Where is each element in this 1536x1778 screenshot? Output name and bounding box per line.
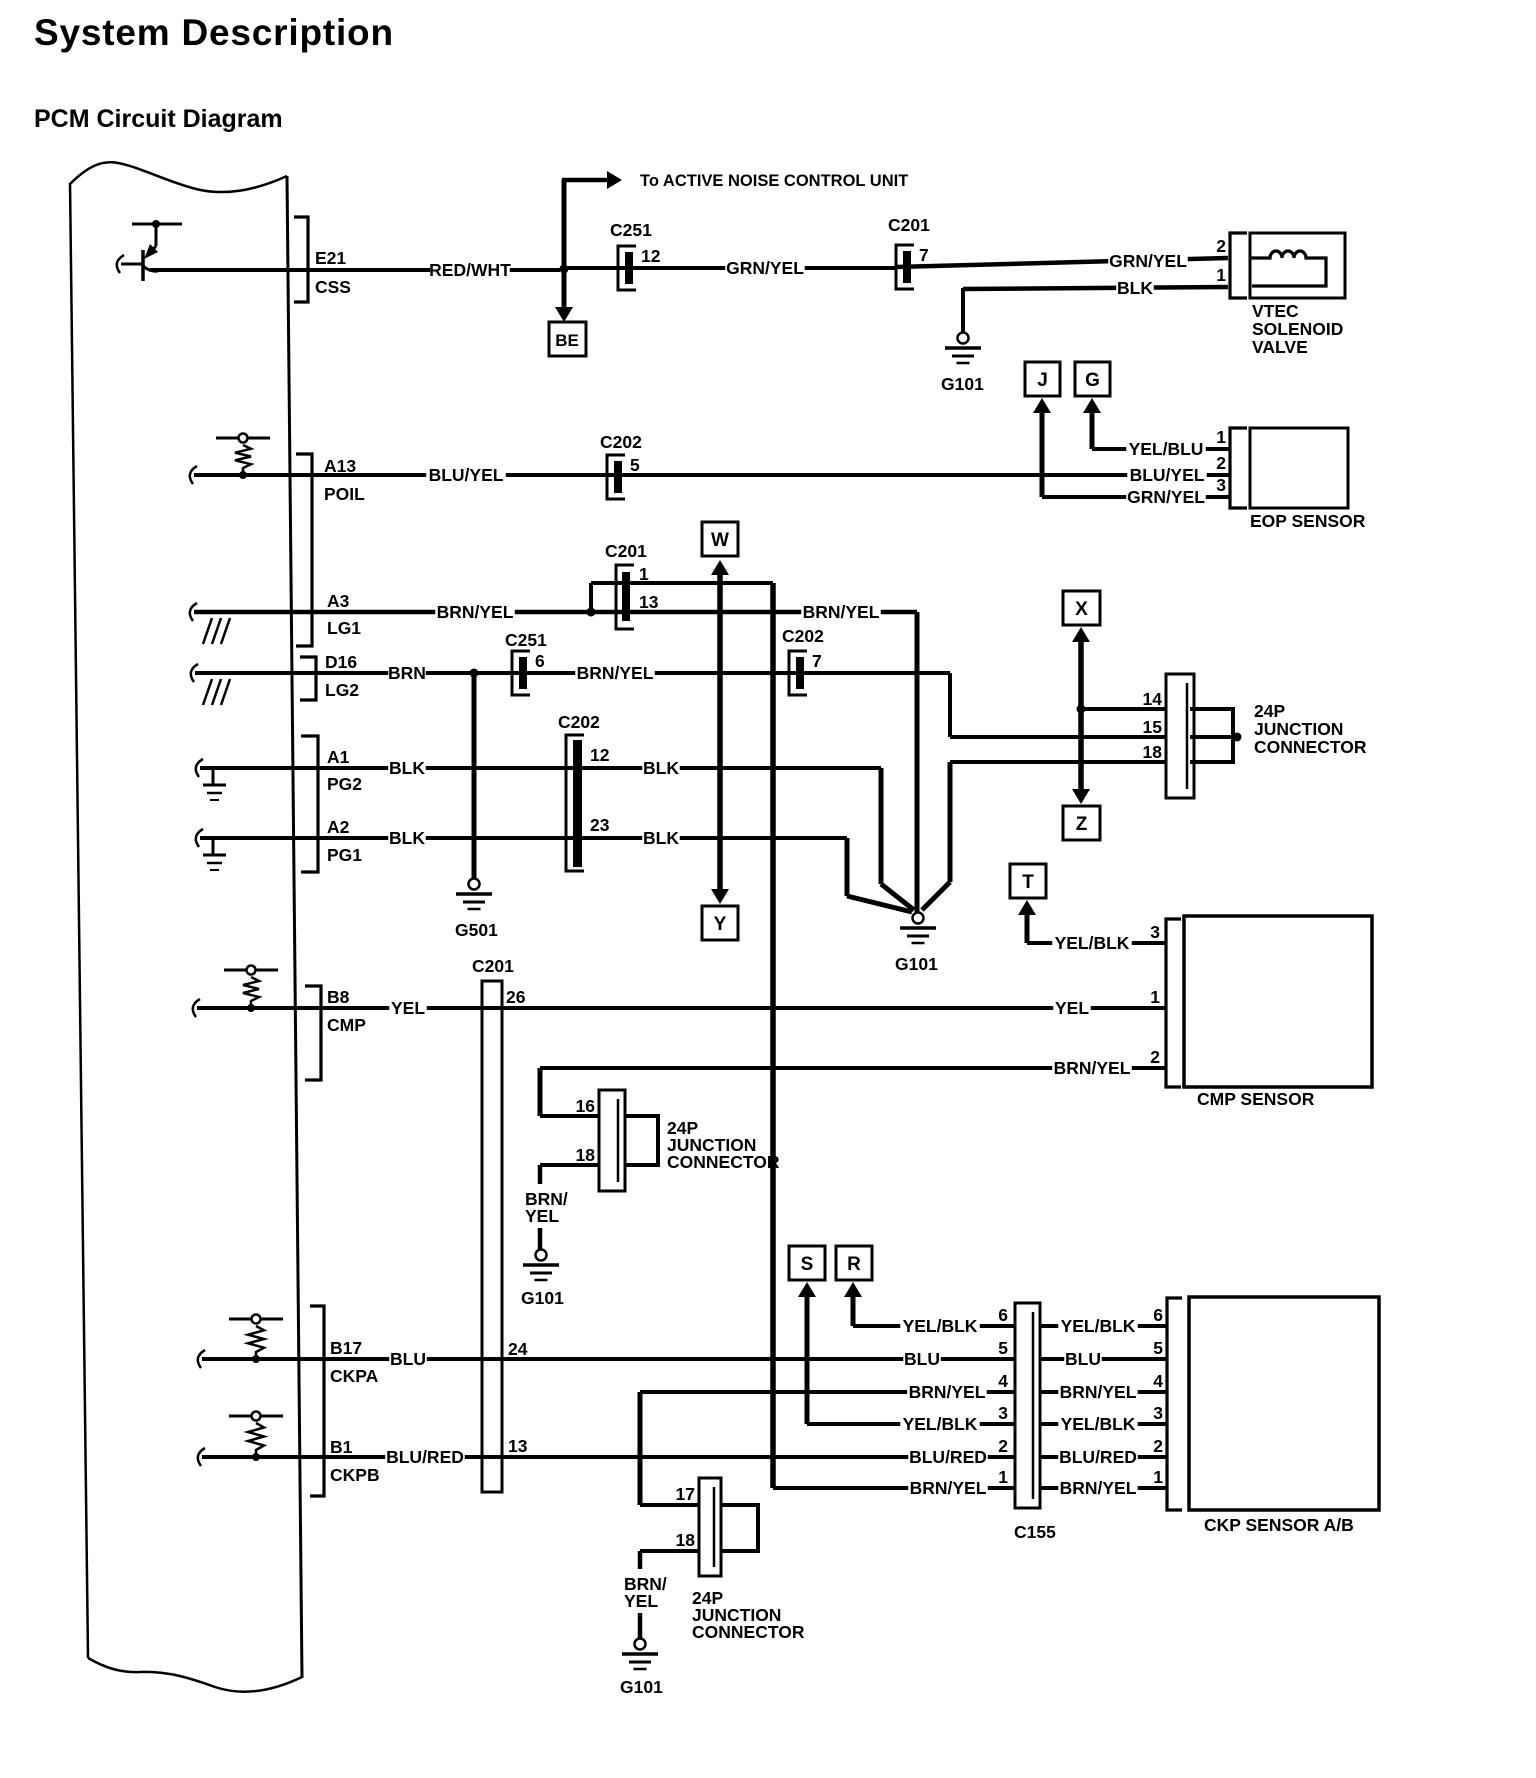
svg-text:14: 14 <box>1143 689 1163 709</box>
svg-text:CONNECTOR: CONNECTOR <box>692 1622 805 1642</box>
svg-text:T: T <box>1022 872 1034 893</box>
svg-text:BLU/YEL: BLU/YEL <box>429 465 504 485</box>
svg-text:6: 6 <box>998 1305 1008 1325</box>
svg-text:GRN/YEL: GRN/YEL <box>1109 251 1187 271</box>
svg-text:5: 5 <box>1153 1338 1163 1358</box>
svg-text:Y: Y <box>714 914 727 935</box>
svg-text:18: 18 <box>1143 742 1163 762</box>
svg-text:BRN/YEL: BRN/YEL <box>1060 1478 1137 1498</box>
svg-text:CONNECTOR: CONNECTOR <box>667 1152 780 1172</box>
svg-text:18: 18 <box>576 1145 596 1165</box>
svg-text:C155: C155 <box>1014 1522 1056 1542</box>
svg-text:BLU: BLU <box>390 1349 426 1369</box>
svg-text:CKP SENSOR A/B: CKP SENSOR A/B <box>1204 1515 1354 1535</box>
svg-text:G101: G101 <box>895 954 938 974</box>
svg-text:1: 1 <box>1150 987 1160 1007</box>
svg-text:2: 2 <box>998 1436 1008 1456</box>
svg-text:To ACTIVE NOISE CONTROL UNIT: To ACTIVE NOISE CONTROL UNIT <box>640 172 908 190</box>
svg-text:7: 7 <box>812 651 822 671</box>
svg-text:1: 1 <box>639 564 649 584</box>
svg-text:C202: C202 <box>558 712 600 732</box>
svg-text:VTEC: VTEC <box>1252 301 1299 321</box>
svg-text:BLK: BLK <box>389 828 425 848</box>
svg-text:26: 26 <box>506 987 526 1007</box>
svg-text:BRN/YEL: BRN/YEL <box>803 602 880 622</box>
svg-text:BLU/RED: BLU/RED <box>1059 1447 1137 1467</box>
svg-text:1: 1 <box>998 1467 1008 1487</box>
svg-text:PCM Circuit Diagram: PCM Circuit Diagram <box>34 105 283 133</box>
svg-text:C202: C202 <box>600 432 642 452</box>
svg-text:BLU/RED: BLU/RED <box>909 1447 987 1467</box>
svg-text:15: 15 <box>1143 717 1163 737</box>
svg-text:13: 13 <box>508 1436 528 1456</box>
svg-text:23: 23 <box>590 815 610 835</box>
svg-text:BRN/YEL: BRN/YEL <box>1060 1382 1137 1402</box>
svg-text:YEL: YEL <box>624 1591 658 1611</box>
svg-text:4: 4 <box>1153 1371 1163 1391</box>
svg-text:7: 7 <box>919 245 929 265</box>
svg-text:BE: BE <box>555 331 579 350</box>
svg-text:5: 5 <box>630 455 640 475</box>
svg-text:24P: 24P <box>1254 701 1285 721</box>
svg-text:CMP: CMP <box>327 1015 366 1035</box>
svg-text:S: S <box>801 1254 814 1275</box>
svg-text:A3: A3 <box>327 591 350 611</box>
svg-text:PG2: PG2 <box>327 774 362 794</box>
svg-text:C251: C251 <box>505 630 547 650</box>
svg-text:X: X <box>1075 599 1088 620</box>
svg-text:2: 2 <box>1150 1047 1160 1067</box>
svg-text:C201: C201 <box>472 956 514 976</box>
svg-text:B17: B17 <box>330 1338 362 1358</box>
svg-text:BLK: BLK <box>389 758 425 778</box>
svg-text:G101: G101 <box>941 374 984 394</box>
svg-text:BLU/RED: BLU/RED <box>386 1447 464 1467</box>
svg-text:YEL/BLK: YEL/BLK <box>903 1316 978 1336</box>
svg-text:6: 6 <box>1153 1305 1163 1325</box>
svg-text:1: 1 <box>1216 265 1226 285</box>
svg-text:18: 18 <box>676 1530 696 1550</box>
svg-text:PG1: PG1 <box>327 845 362 865</box>
svg-text:BRN/YEL: BRN/YEL <box>1054 1058 1131 1078</box>
svg-text:2: 2 <box>1216 453 1226 473</box>
svg-text:CONNECTOR: CONNECTOR <box>1254 737 1367 757</box>
svg-text:3: 3 <box>1153 1403 1163 1423</box>
svg-text:B1: B1 <box>330 1437 353 1457</box>
svg-text:C202: C202 <box>782 626 824 646</box>
svg-text:CKPA: CKPA <box>330 1366 379 1386</box>
svg-text:2: 2 <box>1216 236 1226 256</box>
svg-text:BRN/YEL: BRN/YEL <box>437 602 514 622</box>
svg-text:5: 5 <box>998 1338 1008 1358</box>
svg-text:1: 1 <box>1216 427 1226 447</box>
svg-text:6: 6 <box>535 651 545 671</box>
svg-text:3: 3 <box>1150 922 1160 942</box>
svg-text:13: 13 <box>639 592 659 612</box>
svg-text:LG2: LG2 <box>325 680 359 700</box>
svg-text:YEL/BLK: YEL/BLK <box>1061 1316 1136 1336</box>
svg-text:G101: G101 <box>620 1677 663 1697</box>
svg-text:C201: C201 <box>888 215 930 235</box>
svg-text:BRN: BRN <box>388 663 426 683</box>
svg-text:J: J <box>1037 370 1048 391</box>
svg-text:C201: C201 <box>605 541 647 561</box>
svg-text:YEL/BLK: YEL/BLK <box>1055 933 1130 953</box>
svg-text:A2: A2 <box>327 817 350 837</box>
svg-text:2: 2 <box>1153 1436 1163 1456</box>
svg-text:W: W <box>711 530 729 551</box>
svg-text:1: 1 <box>1153 1467 1163 1487</box>
svg-text:YEL/BLK: YEL/BLK <box>1061 1414 1136 1434</box>
svg-text:CSS: CSS <box>315 277 351 297</box>
svg-text:LG1: LG1 <box>327 618 361 638</box>
svg-text:YEL: YEL <box>1055 998 1089 1018</box>
svg-text:3: 3 <box>998 1403 1008 1423</box>
svg-text:E21: E21 <box>315 248 346 268</box>
svg-text:3: 3 <box>1216 475 1226 495</box>
svg-text:BLK: BLK <box>1117 278 1153 298</box>
svg-text:System Description: System Description <box>34 12 394 53</box>
svg-text:BRN/YEL: BRN/YEL <box>577 663 654 683</box>
svg-text:D16: D16 <box>325 652 357 672</box>
svg-text:POIL: POIL <box>324 484 365 504</box>
svg-text:RED/WHT: RED/WHT <box>429 260 511 280</box>
svg-text:YEL: YEL <box>525 1206 559 1226</box>
svg-text:C251: C251 <box>610 220 652 240</box>
svg-text:BLK: BLK <box>643 758 679 778</box>
svg-text:VALVE: VALVE <box>1252 337 1308 357</box>
svg-text:GRN/YEL: GRN/YEL <box>726 258 804 278</box>
svg-text:12: 12 <box>641 246 661 266</box>
svg-text:YEL/BLK: YEL/BLK <box>903 1414 978 1434</box>
svg-text:CMP SENSOR: CMP SENSOR <box>1197 1089 1315 1109</box>
svg-text:R: R <box>847 1254 861 1275</box>
svg-text:24: 24 <box>508 1339 528 1359</box>
svg-text:A1: A1 <box>327 747 350 767</box>
svg-text:BLU: BLU <box>904 1349 940 1369</box>
svg-text:JUNCTION: JUNCTION <box>1254 719 1343 739</box>
svg-text:B8: B8 <box>327 987 350 1007</box>
svg-text:Z: Z <box>1076 814 1088 835</box>
svg-text:BRN/YEL: BRN/YEL <box>909 1382 986 1402</box>
svg-text:17: 17 <box>676 1484 695 1504</box>
svg-text:G101: G101 <box>521 1288 564 1308</box>
svg-text:G501: G501 <box>455 920 498 940</box>
svg-text:BLU: BLU <box>1065 1349 1101 1369</box>
svg-text:BLU/YEL: BLU/YEL <box>1130 465 1205 485</box>
svg-text:BLK: BLK <box>643 828 679 848</box>
svg-text:YEL/BLU: YEL/BLU <box>1129 439 1204 459</box>
svg-text:GRN/YEL: GRN/YEL <box>1127 487 1205 507</box>
svg-text:12: 12 <box>590 745 610 765</box>
svg-text:G: G <box>1085 370 1100 391</box>
svg-text:YEL: YEL <box>391 998 425 1018</box>
svg-text:CKPB: CKPB <box>330 1465 380 1485</box>
svg-text:EOP SENSOR: EOP SENSOR <box>1250 511 1366 531</box>
svg-text:4: 4 <box>998 1371 1008 1391</box>
svg-text:SOLENOID: SOLENOID <box>1252 319 1343 339</box>
svg-text:16: 16 <box>576 1096 596 1116</box>
svg-text:BRN/YEL: BRN/YEL <box>910 1478 987 1498</box>
